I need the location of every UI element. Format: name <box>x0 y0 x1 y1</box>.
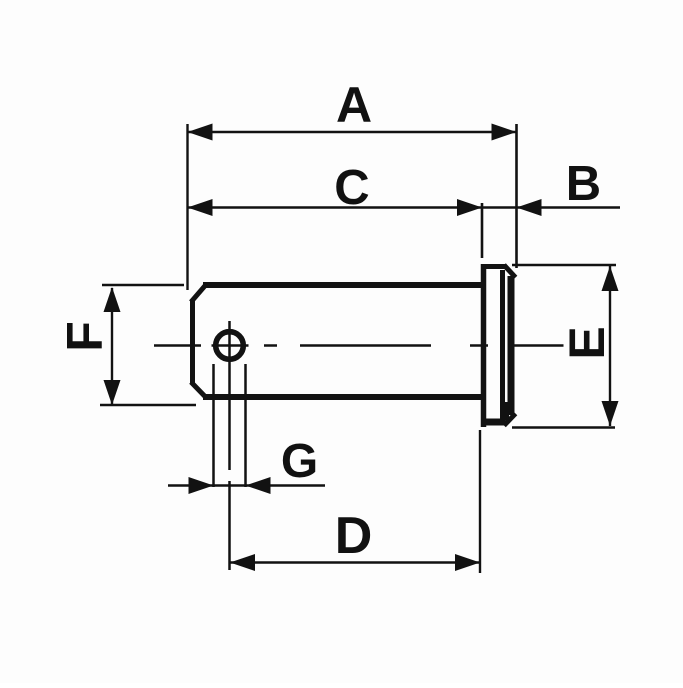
dimension line F <box>111 288 113 404</box>
E bottom extension line <box>512 426 615 429</box>
dimension line C and B <box>188 206 621 208</box>
svg-text:A: A <box>336 77 372 133</box>
arrow E down <box>602 401 619 426</box>
head right edge <box>508 276 515 415</box>
pin body bottom line <box>203 394 483 400</box>
dimension line A <box>188 131 517 133</box>
arrow G left outside <box>189 477 214 494</box>
svg-text:E: E <box>559 326 615 359</box>
svg-text:B: B <box>566 157 601 211</box>
D right extension line <box>479 430 481 573</box>
arrow F down <box>104 380 121 405</box>
hole horizontal centerline <box>212 344 249 347</box>
dimension line D <box>230 561 480 564</box>
svg-text:F: F <box>57 321 113 352</box>
pin body top-left chamfer <box>191 284 207 302</box>
arrow C left <box>188 199 213 216</box>
arrow F up <box>104 287 121 312</box>
left extension line A/C <box>186 124 188 290</box>
D left extension lower segment <box>228 481 231 570</box>
F bottom extension line <box>100 404 196 407</box>
main horizontal centerline dash 1 <box>154 344 201 347</box>
arrow A right <box>492 124 517 141</box>
right extension line A/B (head right face) <box>515 124 518 268</box>
E top extension line <box>512 264 616 267</box>
dimension line E <box>609 266 611 426</box>
arrow D right <box>455 554 480 571</box>
hole vertical centerline / D left extension <box>228 321 231 470</box>
cross hole <box>216 332 244 360</box>
head left edge <box>481 264 487 427</box>
pin body left edge <box>190 300 195 384</box>
F top extension line <box>102 284 184 287</box>
head top-right chamfer <box>504 265 516 278</box>
centerline long dash 3 <box>300 344 431 347</box>
arrow D left <box>230 554 255 571</box>
pin body top line <box>203 282 483 288</box>
svg-text:C: C <box>334 161 369 215</box>
head bottom corner fill <box>503 402 509 420</box>
head bottom edge <box>482 419 506 426</box>
centerline short dash 2 <box>264 344 277 347</box>
arrow C right <box>457 199 482 216</box>
head inner face line <box>500 270 505 420</box>
arrow E up <box>602 266 619 291</box>
arrow A left <box>188 124 213 141</box>
centerline short dash 4 <box>470 344 488 347</box>
head bottom-right chamfer <box>504 414 516 426</box>
svg-text:D: D <box>335 507 373 565</box>
right extension line C (head left face) <box>481 203 484 258</box>
head top edge <box>482 264 506 269</box>
G left extension line <box>212 364 215 487</box>
G right extension line <box>244 364 247 487</box>
arrow B outside <box>517 199 542 216</box>
centerline long dash 5 through head <box>514 344 564 347</box>
svg-text:G: G <box>281 435 318 488</box>
arrow G right outside <box>246 477 271 494</box>
pin body bottom-left chamfer <box>191 382 207 398</box>
dimension line G <box>168 484 325 486</box>
